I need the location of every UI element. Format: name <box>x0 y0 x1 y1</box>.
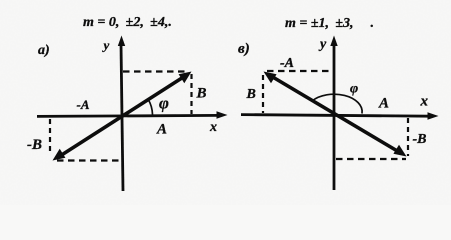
left y-axis <box>118 36 125 192</box>
svg-text:-A: -A <box>77 97 90 112</box>
left angle arc φ <box>148 99 153 115</box>
right dashed horizontal (tip to y-axis) <box>267 70 333 72</box>
svg-text:а): а) <box>38 43 50 58</box>
right dashed vertical (tip to x-axis) <box>262 75 264 113</box>
svg-text:y: y <box>102 38 110 53</box>
svg-text:-B: -B <box>27 137 42 153</box>
svg-text:x: x <box>209 120 217 135</box>
svg-text:-B: -B <box>413 132 427 147</box>
svg-text:m = 0, ±2, ±4,.: m = 0, ±2, ±4,. <box>83 15 172 30</box>
svg-text:A: A <box>378 96 389 112</box>
right angle arc φ <box>312 94 362 113</box>
svg-text:-A: -A <box>280 56 294 71</box>
left x-axis <box>37 111 228 118</box>
right x-axis <box>241 112 439 119</box>
left vector (arrowheads both ends) <box>53 72 192 161</box>
svg-text:φ: φ <box>350 82 358 97</box>
right dashed vertical (below axis, lower right) <box>407 118 409 156</box>
right dashed horizontal (y-axis to tip) <box>336 158 406 160</box>
svg-text:φ: φ <box>159 93 169 112</box>
svg-text:B: B <box>246 87 256 102</box>
left dashed vertical (tip to x-axis) <box>190 74 192 114</box>
right vector (arrowheads both ends) <box>264 72 407 157</box>
left dashed horizontal (tip to y-axis) <box>57 159 121 161</box>
svg-text:y: y <box>318 37 327 52</box>
svg-text:x: x <box>420 93 429 109</box>
right y-axis <box>330 36 337 191</box>
svg-text:в): в) <box>238 41 250 57</box>
scan noise <box>0 0 1 1</box>
svg-text:A: A <box>156 122 167 138</box>
left dashed vertical (below axis, lower left) <box>49 119 51 155</box>
svg-text:B: B <box>196 86 207 102</box>
left dashed horizontal (upper right) <box>123 70 189 72</box>
